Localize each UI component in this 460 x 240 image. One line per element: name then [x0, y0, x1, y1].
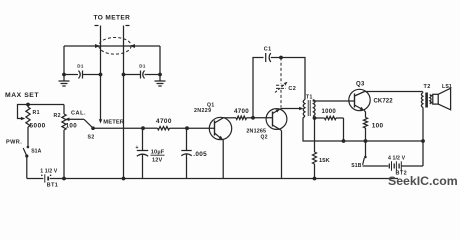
arrowhead C2 trimmer — [284, 82, 288, 86]
wire bottom rail main — [50, 178, 398, 180]
ground left — [63, 75, 65, 82]
wire right drop from meter line — [159, 46, 161, 75]
svg-text:S1B: S1B — [351, 163, 361, 169]
arrowhead METER plug tip — [99, 119, 102, 123]
svg-text:2N229: 2N229 — [194, 108, 211, 114]
wire Q2 base — [253, 117, 273, 119]
svg-text:Q2: Q2 — [261, 134, 268, 140]
svg-text:100: 100 — [66, 123, 78, 130]
svg-text:S1A: S1A — [31, 148, 41, 154]
svg-text:BT1: BT1 — [47, 183, 58, 189]
switch S1B — [365, 141, 367, 157]
svg-text:R2: R2 — [54, 113, 61, 119]
wire bottom rail left — [27, 178, 44, 180]
meter M1 dashed body — [99, 38, 131, 55]
arrowhead R1 wiper — [21, 117, 25, 121]
transformer T2 primary — [422, 92, 425, 93]
wire Q3 collector to T2 — [365, 91, 423, 93]
svg-text:T2: T2 — [424, 84, 431, 90]
svg-text:CAL.: CAL. — [71, 110, 86, 116]
transistor Q2 — [266, 109, 287, 130]
transformer T2 secondary — [430, 95, 431, 105]
arrowhead Q1 emitter — [219, 136, 224, 140]
svg-text:METER: METER — [103, 119, 125, 125]
svg-text:15K: 15K — [319, 158, 331, 164]
node junction right diode — [158, 73, 162, 77]
svg-text:1000: 1000 — [322, 109, 337, 115]
wire S1A to bottom rail — [26, 156, 28, 179]
node MAX SET junction — [26, 103, 30, 107]
resistor 1000 — [315, 117, 325, 119]
battery BT2 — [388, 164, 390, 169]
svg-text:1 1/2 V: 1 1/2 V — [40, 168, 58, 174]
capacitor C2 dashed — [280, 58, 282, 85]
svg-text:MAX SET: MAX SET — [5, 92, 39, 99]
node cap junction — [141, 126, 145, 130]
wire battery row — [363, 165, 389, 167]
switch S1A — [27, 146, 30, 149]
node 15K bottom rail — [313, 177, 317, 181]
svg-text:PWR.: PWR. — [6, 139, 22, 145]
wire meter right terminal vertical — [123, 26, 125, 179]
svg-text:12V: 12V — [152, 158, 163, 164]
svg-text:.005: .005 — [193, 151, 207, 158]
speaker LS1 — [433, 94, 438, 104]
resistor 4700 collector — [223, 117, 236, 119]
svg-text:R1: R1 — [33, 110, 40, 116]
meter lead terminal left tick — [95, 25, 99, 27]
wire 1000 down — [343, 118, 345, 141]
wire R1 wiper bracket — [18, 105, 29, 119]
wire MAX SET to R2 — [28, 104, 64, 106]
svg-text:T1: T1 — [306, 94, 313, 100]
wire riser to C1 — [253, 58, 264, 118]
wire Q1 base — [187, 127, 215, 129]
diode D1 right — [124, 74, 141, 76]
resistor 100 emitter — [364, 118, 368, 129]
transformer T1 primary — [303, 100, 305, 116]
node Q1 base junction — [185, 126, 189, 130]
wire T1 primary bottom — [303, 116, 423, 141]
svg-text:4700: 4700 — [234, 108, 249, 115]
node junction left diode — [62, 73, 66, 77]
wire mid rail S2 to cap junction — [93, 127, 143, 129]
wire left drop from meter line — [63, 46, 65, 75]
svg-text:D1: D1 — [77, 64, 84, 69]
svg-text:S2: S2 — [88, 134, 95, 140]
diode D1 left — [64, 74, 78, 76]
node 1000 junction — [342, 139, 346, 143]
potentiometer R1 — [27, 105, 29, 108]
transformer T1 secondary — [313, 100, 315, 116]
svg-text:5000: 5000 — [30, 122, 46, 129]
node T1 secondary bottom — [313, 116, 314, 118]
switch S2 CAL — [65, 118, 69, 122]
svg-text:100: 100 — [372, 122, 384, 129]
svg-text:Q3: Q3 — [356, 82, 365, 88]
transistor Q1 — [209, 117, 231, 139]
svg-text:D1: D1 — [139, 64, 146, 69]
wire T1 secondary top to Q3 base — [313, 100, 349, 102]
node C1 junction — [279, 56, 283, 60]
svg-text:10µF: 10µF — [151, 149, 165, 155]
transformer T1 core — [307, 100, 309, 116]
arrowhead meter right connection — [130, 44, 135, 48]
arrowhead Q3 emitter — [360, 107, 365, 111]
battery BT1 — [44, 174, 46, 182]
transistor Q3 — [349, 89, 370, 110]
wire meter left terminal vertical — [100, 26, 102, 120]
ground right — [159, 75, 161, 82]
svg-text:SeekIC.com: SeekIC.com — [388, 174, 458, 188]
svg-text:CK722: CK722 — [374, 99, 394, 105]
resistor R2 — [63, 105, 65, 115]
wire Q2 top lead to T1 — [281, 108, 300, 110]
svg-text:+: + — [135, 145, 139, 151]
svg-text:4 1/2 V: 4 1/2 V — [388, 156, 406, 162]
node Q2 base junction — [251, 116, 255, 120]
arrowhead meter left connection — [95, 44, 100, 48]
arrowhead into T1 — [299, 107, 303, 111]
capacitor 10uF electrolytic — [142, 128, 144, 150]
resistor 4700 mid rail — [143, 127, 158, 129]
transformer T2 core — [425, 93, 428, 108]
wire T2 bottom riser — [422, 108, 424, 167]
wire Q3 emitter down — [364, 110, 365, 117]
capacitor .005 — [186, 128, 188, 150]
wire battery to T2 riser — [401, 165, 423, 167]
wire Q1 emitter down — [222, 140, 224, 179]
svg-text:C1: C1 — [264, 47, 272, 53]
capacitor C1 — [265, 53, 267, 62]
resistor 15K — [314, 118, 316, 152]
node R2 bottom rail junction — [62, 177, 66, 181]
meter lead terminal right tick — [126, 25, 130, 27]
wire meter horizontal through — [64, 45, 160, 47]
node junction D1 right to meter lead — [122, 73, 126, 77]
svg-text:4700: 4700 — [156, 118, 172, 125]
wire C1 to T1 top — [281, 58, 305, 100]
node emitter bottom junction — [364, 139, 368, 143]
wire Q2 collector down — [281, 131, 283, 179]
node meter lead bottom junction — [122, 177, 126, 181]
arrowhead Q2 top lead — [276, 109, 280, 113]
node T2 riser junction — [421, 139, 425, 143]
svg-text:TO METER: TO METER — [94, 14, 131, 21]
node junction D1 left to meter lead — [99, 73, 103, 77]
svg-text:C2: C2 — [288, 86, 296, 92]
